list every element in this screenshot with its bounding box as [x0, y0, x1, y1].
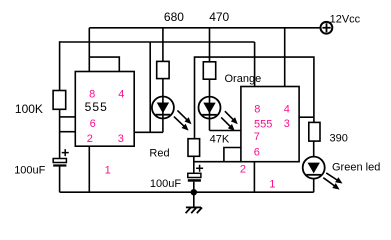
wire chip1 pin3 out	[134, 131, 163, 133]
wire orange LED to chip2 pin7	[210, 130, 241, 132]
LED D2 Orange	[199, 97, 238, 131]
wire chip1 pin8-pin4 notch	[89, 57, 119, 71]
wire cap1 bottom to rail	[59, 166, 61, 192]
wire VCC drop to chip2 pin4	[284, 28, 286, 87]
svg-text:100uF: 100uF	[150, 178, 181, 190]
svg-text:12Vcc: 12Vcc	[330, 13, 361, 25]
capacitor C2 100uF	[188, 165, 203, 182]
wire chip1 output rail	[60, 41, 255, 43]
resistor R1 100K	[53, 91, 66, 110]
wire 470 branch top	[209, 28, 211, 62]
svg-text:2: 2	[87, 133, 93, 145]
wire chip2 pin3 to 390	[299, 116, 314, 118]
svg-text:8: 8	[254, 104, 260, 116]
svg-text:3: 3	[284, 118, 290, 130]
wire rail2 to chip2 pin8	[254, 42, 256, 87]
wire 680 branch top	[162, 28, 164, 62]
svg-text:Orange: Orange	[225, 73, 262, 85]
wire 470 to orange LED down	[209, 79, 211, 130]
wire chip2 pin6 step	[224, 148, 241, 162]
wire VCC drop to chip1	[88, 28, 90, 72]
wire rail2 drop to pin3	[149, 42, 151, 133]
LED D1 Red	[152, 97, 192, 131]
wire ground bottom rail	[60, 191, 314, 193]
capacitor C1 100uF	[53, 149, 68, 166]
ground	[186, 207, 202, 213]
svg-text:390: 390	[330, 133, 348, 145]
wire green LED to ground rail	[313, 179, 315, 193]
wire pin2 stub chip1	[60, 131, 76, 133]
svg-text:1: 1	[269, 179, 275, 191]
svg-text:1: 1	[105, 164, 111, 176]
svg-text:100K: 100K	[15, 102, 43, 116]
wire 680 to red LED and down	[162, 79, 164, 133]
wire 47K to cap2	[193, 156, 195, 173]
wire pin6 stub chip1	[60, 116, 76, 118]
svg-text:6: 6	[254, 147, 260, 159]
wire timing node to chip2	[194, 161, 241, 163]
power 12Vcc terminal	[321, 22, 333, 34]
wire chip2 pin3 output net	[195, 57, 314, 139]
svg-text:680: 680	[164, 10, 184, 24]
wire left rail vertical (output to 100K)	[59, 41, 61, 90]
svg-text:8: 8	[89, 88, 95, 100]
svg-text:470: 470	[209, 10, 229, 24]
svg-text:Red: Red	[149, 147, 169, 159]
wire 390 to green LED	[313, 141, 315, 157]
svg-text:555: 555	[254, 119, 272, 131]
resistor R2 680	[157, 61, 169, 78]
svg-text:2: 2	[240, 163, 246, 175]
wire VCC top rail	[89, 27, 321, 29]
resistor R3 470	[203, 62, 215, 79]
wire cap2 bottom to rail	[193, 182, 195, 193]
svg-text:47K: 47K	[210, 134, 230, 146]
svg-text:6: 6	[90, 118, 96, 130]
svg-text:100uF: 100uF	[14, 164, 45, 176]
svg-text:7: 7	[254, 131, 260, 143]
wire ground stem	[193, 192, 195, 207]
svg-text:Green led: Green led	[332, 161, 380, 173]
svg-text:4: 4	[118, 88, 124, 100]
resistor R5 390	[309, 122, 320, 141]
IC U1 555 timer body	[75, 72, 134, 147]
LED D3 Green	[303, 157, 343, 190]
wire chip2 pin1 to ground	[253, 162, 255, 193]
node junction dot	[191, 189, 197, 195]
wire chip1 pin1 to ground rail	[88, 146, 90, 192]
resistor R4 47K	[188, 139, 200, 157]
IC U2 555 timer body	[241, 87, 299, 162]
svg-text:555: 555	[85, 100, 108, 114]
svg-text:3: 3	[118, 133, 124, 145]
svg-text:4: 4	[284, 104, 290, 116]
wire 100K bottom to cap	[59, 109, 61, 158]
